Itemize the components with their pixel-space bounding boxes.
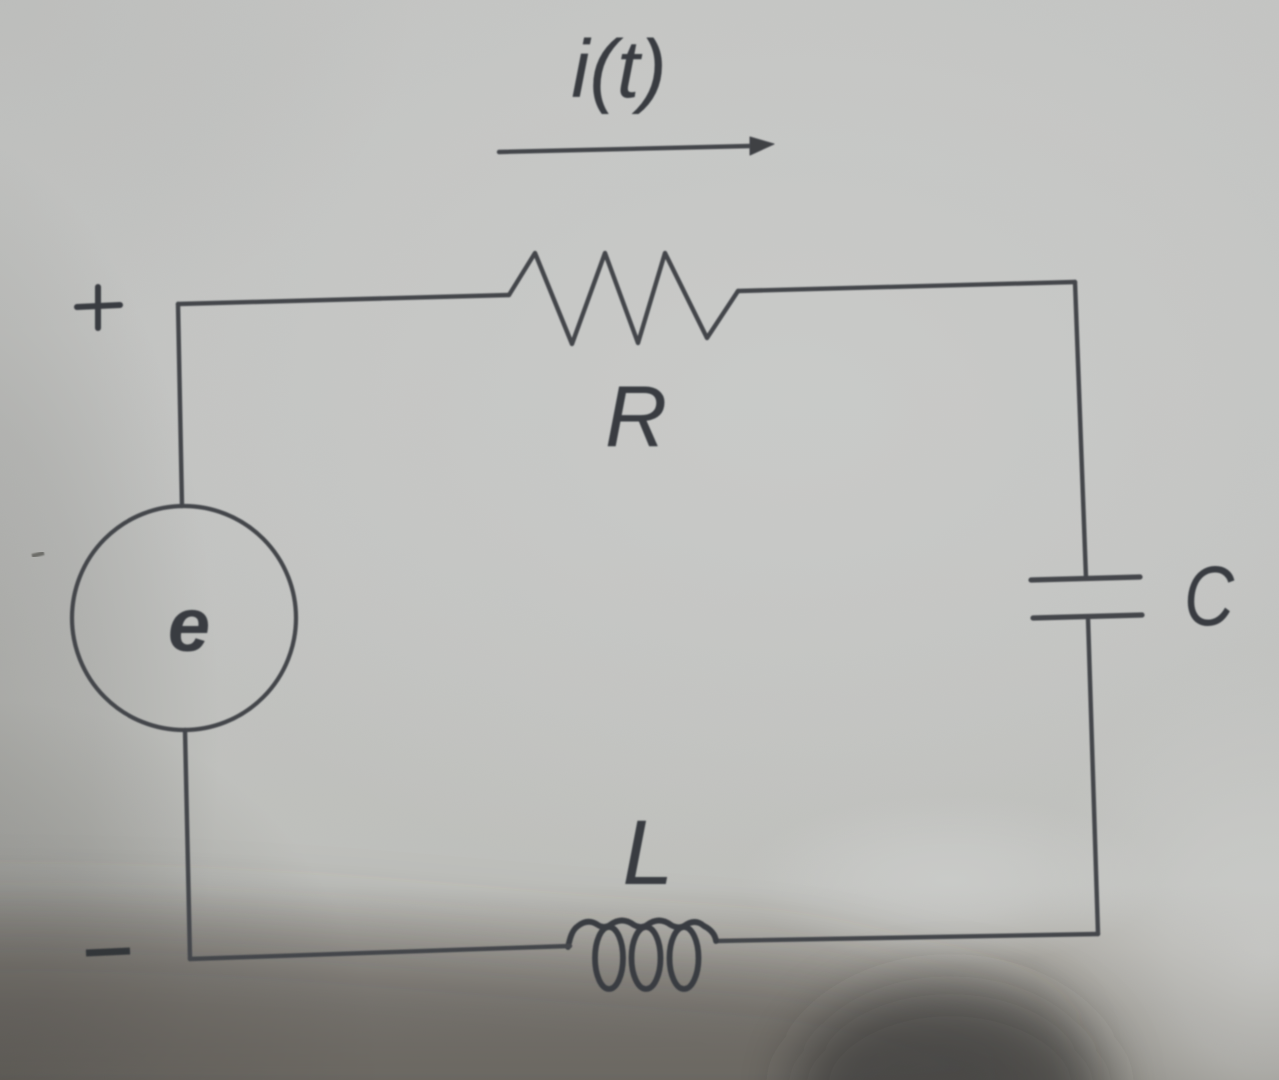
wire bottom-right [716,934,1098,941]
polarity - [86,951,130,953]
voltage source e [72,506,296,730]
wire top-right [738,282,1075,291]
inductor L [568,921,716,990]
dark blob bottom right-center [795,984,1105,1080]
bottom shadow band [0,916,1048,1080]
wire left lower [185,730,190,959]
current arrow i(t) [499,137,774,155]
wire top-left [178,295,509,304]
resistor R [509,253,738,344]
capacitor C [1031,577,1142,618]
wire left upper [178,304,182,506]
wire right upper [1075,282,1086,578]
wire bottom-left [190,946,570,959]
wire right lower [1088,618,1098,934]
polarity + [77,287,120,328]
small stray mark left edge [32,553,44,556]
